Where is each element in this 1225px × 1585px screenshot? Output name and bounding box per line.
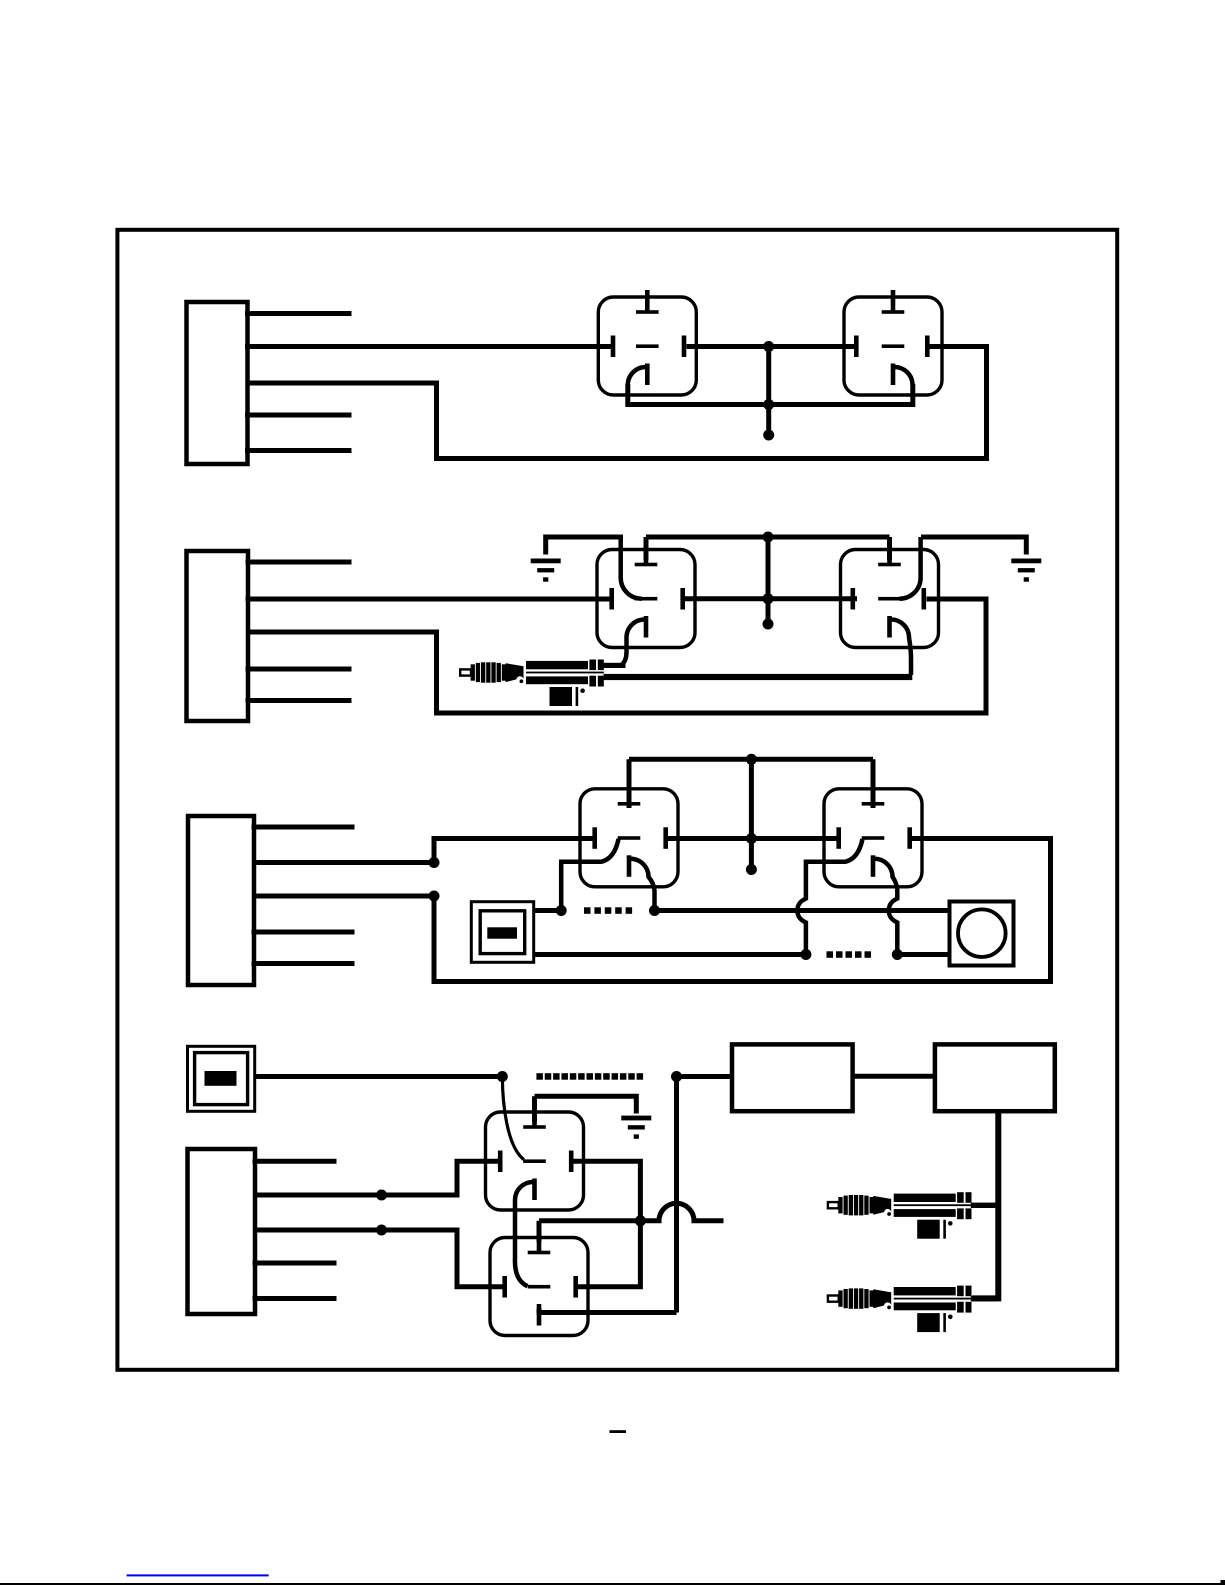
lamp L1 box xyxy=(950,902,1014,966)
J2 pin 5 wire xyxy=(248,698,349,703)
J2 pin 4 wire xyxy=(248,667,349,672)
J1 pin 4 wire xyxy=(248,413,350,418)
ground G2 xyxy=(1011,559,1041,582)
connector J4 xyxy=(188,1149,256,1314)
wire nut W2 xyxy=(828,1192,972,1239)
S5 dimmed-leg curve xyxy=(561,839,618,908)
switch S2 xyxy=(844,290,942,395)
J4 pin 1 wire xyxy=(255,1159,334,1164)
W2 lead wire xyxy=(971,1203,999,1208)
junction dot D1 xyxy=(556,905,567,916)
lower hidden-link dots xyxy=(827,951,834,958)
S7 ground wire xyxy=(535,1096,637,1122)
connector J3 xyxy=(188,816,254,985)
pilot device P1 inner xyxy=(480,911,525,954)
S4 ground curve xyxy=(900,537,921,599)
J1 pin 1 wire xyxy=(248,311,350,316)
ground G1 wire xyxy=(546,535,623,555)
ground G1 xyxy=(531,559,561,582)
switch S6 xyxy=(824,782,922,887)
sensor junction dot E1 xyxy=(497,1071,508,1082)
node end dot A3 xyxy=(763,430,774,441)
J2 pin 2 wire xyxy=(248,597,611,602)
pilot device P1 bar xyxy=(487,927,517,938)
footer rule xyxy=(0,1583,1225,1585)
diagram border frame xyxy=(117,230,1117,1370)
module box M2 xyxy=(935,1044,1055,1111)
S8 bottom wire xyxy=(539,1308,677,1313)
junction dot C2 xyxy=(746,833,757,844)
S6 common curve xyxy=(875,859,898,952)
hidden-link dots row xyxy=(536,1073,543,1080)
pin3 dot xyxy=(376,1225,387,1236)
top wire S5 stem to S6 stem xyxy=(629,759,873,808)
junction dot D4 xyxy=(892,949,903,960)
junction dot E2 xyxy=(671,1071,682,1082)
P2 output wire xyxy=(255,1074,500,1079)
footer rule right tick xyxy=(1221,1580,1225,1585)
pilot device P1 outer xyxy=(471,902,533,963)
node end dot B3 xyxy=(763,619,774,630)
junction dot A2 xyxy=(763,399,774,410)
wire S1 to S2 travelers xyxy=(687,344,855,349)
page number dash xyxy=(610,1430,627,1433)
S8 stem wire xyxy=(539,1221,638,1242)
node stub wire 2 xyxy=(766,537,771,624)
switch S8 xyxy=(490,1231,588,1336)
J3 pin 1 wire xyxy=(254,825,352,830)
junction dot B1 xyxy=(763,532,774,543)
S3 ground curve xyxy=(621,537,642,599)
J1 pin 5 wire xyxy=(248,448,350,453)
connector J1 xyxy=(187,302,248,464)
junction dot B2 xyxy=(763,593,774,604)
S6 dimmed-leg curve xyxy=(797,839,862,952)
lamp L1 bulb xyxy=(958,909,1006,957)
switch S5 xyxy=(580,782,678,887)
pin2 dot xyxy=(376,1190,387,1201)
ground G2 wire xyxy=(921,535,1026,555)
switch S3 xyxy=(597,543,695,648)
pilot device P2 bar xyxy=(205,1071,237,1086)
J1 pin 3 wire xyxy=(248,347,987,459)
J2 pin 1 wire xyxy=(248,560,349,565)
switch S7 xyxy=(486,1105,584,1210)
S1-S2 bottom common wire xyxy=(628,384,913,405)
module box M1 xyxy=(732,1044,853,1111)
J4 pin 5 wire xyxy=(255,1296,334,1301)
J3 pin 4 wire xyxy=(254,930,352,935)
pilot device P2 inner xyxy=(195,1053,248,1105)
upper hidden-link dots xyxy=(584,907,591,914)
S5 common curve xyxy=(631,859,655,908)
S4 common curve xyxy=(891,620,911,676)
ground G3 xyxy=(621,1116,651,1139)
S2 common curve xyxy=(895,367,913,385)
J3 pin 5 wire xyxy=(254,961,352,966)
J3 pin 2 wire xyxy=(254,839,595,863)
connector J2 xyxy=(187,551,249,721)
wire M1 to M2 xyxy=(853,1074,935,1079)
wire nut W3 xyxy=(828,1286,972,1333)
S7 right wire down xyxy=(572,1161,641,1287)
traveler wire S5 to S6 xyxy=(668,836,839,841)
long vertical return wire xyxy=(674,1077,679,1313)
upper row wire to lamp xyxy=(657,908,949,913)
S7 common curve to S8 xyxy=(515,1182,533,1286)
wire to module M1 xyxy=(677,1074,733,1079)
J4 pin 3 wire xyxy=(255,1230,504,1287)
footer link underline xyxy=(127,1574,269,1576)
S7 pilot thin curve xyxy=(502,1077,524,1160)
pin2 junction dot xyxy=(429,857,440,868)
junction dot C1 xyxy=(746,754,757,765)
node end dot C3 xyxy=(746,864,757,875)
S3 common curve xyxy=(621,620,645,666)
junction dot E3 xyxy=(635,1215,646,1226)
J4 pin 4 wire xyxy=(255,1261,334,1266)
node drop wire xyxy=(749,759,754,869)
J2 pin 3 wire xyxy=(248,599,986,713)
M2 drop wire xyxy=(972,1111,998,1298)
W1 lower lead long wire xyxy=(604,674,913,680)
switch S4 xyxy=(841,543,939,648)
junction dot D3 xyxy=(800,949,811,960)
S1 common curve xyxy=(628,367,646,385)
wire S3 to S4 travelers xyxy=(685,596,858,601)
pin3 junction dot xyxy=(429,891,440,902)
J1 pin 2 wire xyxy=(248,344,613,349)
switch S1 xyxy=(598,290,696,395)
hop wire over vertical xyxy=(640,1203,723,1221)
P1 lower wire left part xyxy=(534,952,803,957)
P1 upper wire xyxy=(534,908,559,913)
wire nut W1 xyxy=(460,660,604,707)
J4 pin 2 wire xyxy=(255,1161,500,1195)
junction dot A1 xyxy=(763,341,774,352)
W3 lead wire xyxy=(971,1296,999,1301)
node stub wire xyxy=(766,347,771,436)
J3 pin 3 wire xyxy=(254,839,1051,982)
top wire S3 stem to S4 stem xyxy=(646,537,890,560)
W1 upper lead wire xyxy=(604,663,626,668)
junction dot D2 xyxy=(649,905,660,916)
lower wire right part xyxy=(900,952,949,957)
pilot device P2 outer xyxy=(188,1046,255,1111)
